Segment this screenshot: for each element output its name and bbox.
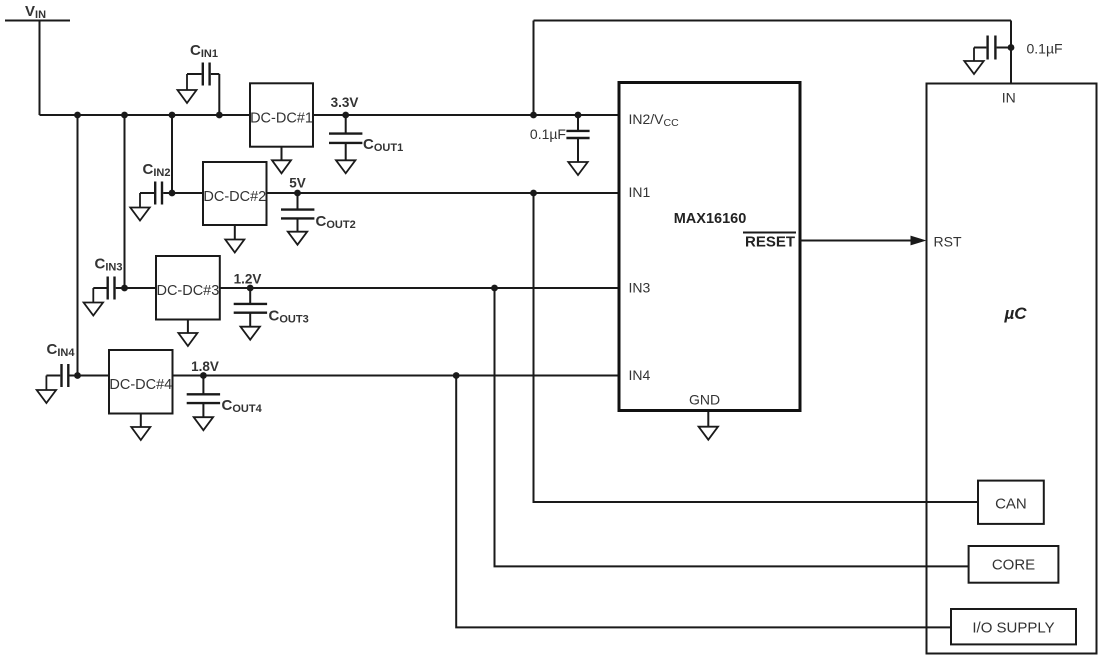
ground below DC-DC#3 xyxy=(178,320,197,347)
svg-text:DC-DC#2: DC-DC#2 xyxy=(203,189,266,205)
svg-text:0.1µF: 0.1µF xyxy=(530,126,566,142)
ground for CIN3 xyxy=(84,288,103,316)
svg-text:CAN: CAN xyxy=(995,495,1027,512)
svg-text:5V: 5V xyxy=(289,175,306,190)
svg-text:1.2V: 1.2V xyxy=(234,272,262,287)
ground for COUT2 xyxy=(288,232,307,245)
junction 1.8V at I/O feed xyxy=(453,372,460,379)
wire drop to DC-DC#3 input xyxy=(124,115,126,288)
I/O SUPPLY block xyxy=(951,609,1076,644)
wire 1.2V net from DC-DC#3 to IN3 xyxy=(220,287,619,289)
op IC MAX16160 box xyxy=(619,83,800,411)
capacitor 0.1uF at uC IN xyxy=(974,36,1011,60)
svg-text:IN1: IN1 xyxy=(629,184,651,200)
ground for CIN4 xyxy=(37,376,56,404)
svg-text:DC-DC#3: DC-DC#3 xyxy=(156,283,219,299)
DC-DC#1 converter box xyxy=(250,83,313,146)
arrowhead at RST xyxy=(911,236,927,246)
ground for CIN1 xyxy=(178,74,197,103)
svg-text:CORE: CORE xyxy=(992,557,1035,574)
wire 5V net from DC-DC#2 to IN1 xyxy=(267,192,620,194)
ground for mid 0.1uF xyxy=(568,162,587,175)
junction CIN2 / DC-DC#2 input xyxy=(169,190,176,197)
svg-text:IN: IN xyxy=(1002,90,1016,106)
wire down to uC IN pin xyxy=(1010,21,1012,84)
capacitor COUT1 xyxy=(329,115,362,160)
svg-text:GND: GND xyxy=(689,392,720,408)
capacitor CIN1 xyxy=(187,63,219,116)
svg-text:0.1µF: 0.1µF xyxy=(1027,41,1063,57)
wire 3.3V net from DC-DC#1 to IN2/VCC xyxy=(313,114,619,116)
wire drop to DC-DC#2 input xyxy=(171,115,173,193)
ground at GND pin xyxy=(699,412,718,440)
svg-text:IN3: IN3 xyxy=(629,280,651,296)
junction at top-right 0.1uF xyxy=(1008,44,1015,51)
DC-DC#3 converter box xyxy=(156,256,220,320)
junction on bus at x=219.3 xyxy=(216,112,223,119)
ground for CIN2 xyxy=(130,193,149,221)
junction CIN3 / DC-DC#3 input xyxy=(121,285,128,292)
wire RESET to RST xyxy=(800,240,913,242)
capacitor CIN4 xyxy=(46,364,109,387)
junction 3.3V at top feed xyxy=(530,112,537,119)
ground for COUT4 xyxy=(194,417,213,430)
capacitor COUT3 xyxy=(234,288,267,327)
svg-text:IN4: IN4 xyxy=(629,367,651,383)
ground below DC-DC#1 xyxy=(272,147,291,174)
wire top rail xyxy=(534,20,1012,22)
junction on bus at x=77.5 xyxy=(74,112,81,119)
junction 1.2V at CORE feed xyxy=(491,285,498,292)
junction on bus at x=124.5 xyxy=(121,112,128,119)
svg-text:DC-DC#4: DC-DC#4 xyxy=(109,377,172,393)
junction 1.2V at COUT3 xyxy=(247,285,254,292)
wire feed up from 3.3V to top rail xyxy=(533,21,535,116)
junction on bus at x=172 xyxy=(169,112,176,119)
CAN block xyxy=(978,481,1044,524)
svg-text:µC: µC xyxy=(1004,304,1028,323)
svg-text:MAX16160: MAX16160 xyxy=(674,211,747,227)
svg-text:I/O SUPPLY: I/O SUPPLY xyxy=(972,620,1054,637)
svg-text:RESET: RESET xyxy=(745,234,795,251)
wire drop to DC-DC#4 input xyxy=(77,115,79,376)
capacitor COUT4 xyxy=(187,376,220,418)
wire feed 1.2V down to CORE xyxy=(495,288,969,566)
ground for top-right 0.1uF xyxy=(964,48,983,75)
capacitor CIN3 xyxy=(93,277,156,300)
capacitor CIN2 xyxy=(140,182,203,205)
DC-DC#2 converter box xyxy=(203,162,267,225)
ground for COUT1 xyxy=(336,160,355,173)
junction 3.3V at 0.1uF cap xyxy=(575,112,582,119)
CORE block xyxy=(969,546,1059,583)
uC microcontroller box xyxy=(927,84,1097,654)
node VIN rail bar xyxy=(5,20,70,22)
DC-DC#4 converter box xyxy=(109,350,173,414)
junction 1.8V at COUT4 xyxy=(200,372,207,379)
svg-text:3.3V: 3.3V xyxy=(331,95,359,110)
wire 1.8V net from DC-DC#4 to IN4 xyxy=(173,375,620,377)
svg-text:DC-DC#1: DC-DC#1 xyxy=(250,110,313,126)
ground below DC-DC#4 xyxy=(131,414,150,441)
wire input bus to DC-DC#1 xyxy=(40,114,252,116)
capacitor COUT2 xyxy=(281,193,314,232)
ground for COUT3 xyxy=(241,327,260,340)
wire VIN vertical xyxy=(39,21,41,116)
capacitor 0.1uF at IN2/VCC xyxy=(566,115,589,162)
ground below DC-DC#2 xyxy=(225,225,244,253)
junction 5V at COUT2 xyxy=(294,190,301,197)
svg-text:RST: RST xyxy=(934,234,962,250)
wire feed 1.8V down to I/O SUPPLY xyxy=(456,376,951,628)
junction 3.3V at COUT1 xyxy=(342,112,349,119)
wire feed 5V down to CAN xyxy=(534,193,979,502)
junction 5V at CAN feed xyxy=(530,190,537,197)
svg-text:1.8V: 1.8V xyxy=(191,359,219,374)
junction CIN4 / DC-DC#4 input xyxy=(74,372,81,379)
